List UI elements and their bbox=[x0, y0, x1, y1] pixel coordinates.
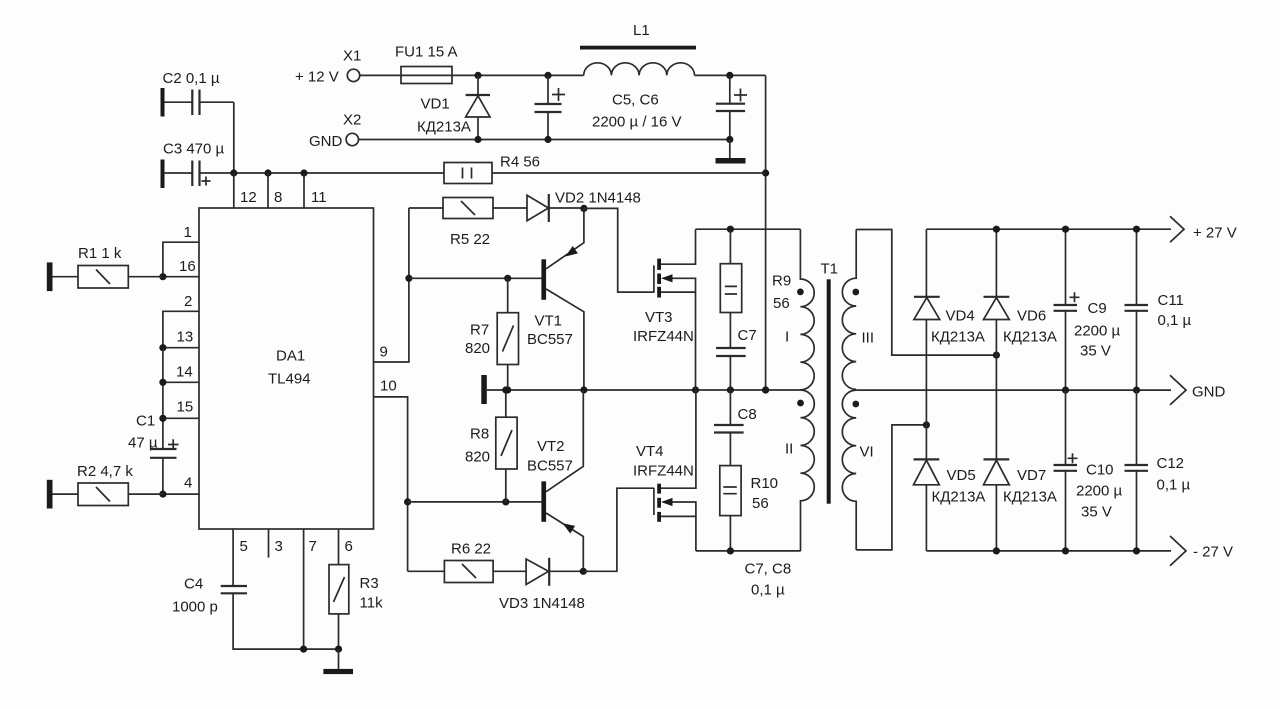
node VD1 bottom bbox=[474, 136, 481, 143]
terminal bar +rail bbox=[481, 375, 487, 404]
resistor R4 56 bbox=[444, 154, 540, 184]
svg-text:6: 6 bbox=[345, 538, 353, 555]
wire GND rail bbox=[856, 389, 1171, 391]
phase dot winding III bbox=[852, 289, 859, 296]
svg-text:1000 p: 1000 p bbox=[172, 599, 218, 616]
svg-text:R9: R9 bbox=[772, 273, 791, 290]
svg-text:9: 9 bbox=[380, 344, 388, 361]
op-amp U1 / IC DA1 TL494 body bbox=[199, 208, 374, 529]
wire mid rail left bbox=[487, 389, 801, 391]
node C6 bottom bbox=[726, 136, 733, 143]
node VD4 VD5 junction bbox=[923, 421, 930, 428]
node C9 top bbox=[1062, 226, 1069, 233]
node R7 bottom bbox=[504, 386, 511, 393]
connector X2 bbox=[309, 112, 361, 151]
capacitor C7 bbox=[716, 313, 757, 391]
svg-text:VI: VI bbox=[860, 444, 874, 461]
pin 14 stub bbox=[163, 381, 199, 383]
node C11 top bbox=[1133, 226, 1140, 233]
pin 1 stub bbox=[163, 242, 199, 277]
svg-text:BC557: BC557 bbox=[527, 458, 573, 475]
wire pin 12 bbox=[233, 173, 235, 208]
svg-text:C5, C6: C5, C6 bbox=[612, 92, 659, 109]
svg-text:VT2: VT2 bbox=[537, 438, 565, 455]
svg-text:КД213А: КД213А bbox=[932, 489, 986, 506]
wire bottom rail bbox=[696, 550, 801, 552]
svg-text:T1: T1 bbox=[821, 261, 839, 278]
node center tap feed bbox=[762, 386, 769, 393]
svg-text:14: 14 bbox=[176, 364, 193, 381]
arrow -27V output bbox=[1170, 536, 1233, 566]
resistor R7 820 bbox=[465, 278, 519, 390]
capacitor C6 bbox=[716, 75, 747, 139]
svg-text:IRFZ44N: IRFZ44N bbox=[633, 463, 694, 480]
resistor R3 11k bbox=[329, 565, 383, 650]
pin 6 wire bbox=[338, 529, 340, 565]
svg-text:VD5: VD5 bbox=[947, 467, 976, 484]
diode VD1 КД213А bbox=[417, 75, 490, 139]
svg-text:КД213А: КД213А bbox=[1003, 489, 1057, 506]
svg-text:16: 16 bbox=[179, 258, 196, 275]
wire VD6 VD7 vertical bbox=[995, 229, 997, 551]
diode VD7 КД213А bbox=[984, 459, 1057, 505]
svg-text:R1 1 k: R1 1 k bbox=[78, 245, 122, 262]
svg-text:11: 11 bbox=[311, 189, 327, 206]
svg-text:C7, C8: C7, C8 bbox=[745, 561, 792, 578]
capacitor C10 bbox=[1054, 390, 1123, 551]
svg-text:КД213А: КД213А bbox=[1003, 329, 1057, 346]
node pin11 top bbox=[300, 169, 307, 176]
transformer T1 primary winding I bbox=[785, 229, 814, 390]
node VD6 VD7 junction bbox=[993, 352, 1000, 359]
pin 7 wire bbox=[303, 529, 305, 649]
svg-text:C11: C11 bbox=[1158, 292, 1184, 309]
transformer T1 secondary winding III bbox=[842, 230, 874, 390]
capacitor C3 470 µ bbox=[161, 141, 225, 189]
wire pin 11 bbox=[303, 173, 305, 208]
node R4 feed bbox=[762, 169, 769, 176]
wire VD3 node to VT4 gate bbox=[583, 488, 654, 571]
wire X2 GND row bbox=[359, 139, 730, 141]
node C5 bottom bbox=[544, 136, 551, 143]
phase dot winding VI bbox=[852, 401, 859, 408]
svg-text:+ 27 V: + 27 V bbox=[1193, 225, 1237, 242]
fuse FU1 15 A bbox=[395, 44, 458, 84]
capacitor C1 47 µ bbox=[128, 413, 179, 495]
ground symbol bottom bbox=[323, 649, 353, 674]
svg-text:15: 15 bbox=[177, 399, 194, 416]
node VT1 collector bbox=[580, 386, 587, 393]
svg-text:C1: C1 bbox=[136, 413, 155, 430]
svg-text:8: 8 bbox=[274, 189, 282, 206]
svg-text:R4 56: R4 56 bbox=[500, 154, 540, 171]
capacitor C4 1000 p bbox=[172, 576, 339, 650]
svg-text:2200 µ / 16 V: 2200 µ / 16 V bbox=[592, 114, 682, 131]
svg-text:X1: X1 bbox=[343, 48, 361, 65]
svg-text:0,1 µ: 0,1 µ bbox=[751, 582, 785, 599]
svg-text:GND: GND bbox=[309, 133, 343, 150]
svg-text:TL494: TL494 bbox=[268, 371, 311, 388]
svg-text:35 V: 35 V bbox=[1080, 343, 1111, 360]
pin 10 stub bbox=[374, 397, 408, 571]
svg-text:C10: C10 bbox=[1086, 462, 1114, 479]
svg-text:2: 2 bbox=[184, 293, 192, 310]
pin 4 stub bbox=[163, 493, 199, 495]
svg-text:BC557: BC557 bbox=[527, 331, 573, 348]
svg-text:X2: X2 bbox=[343, 112, 361, 129]
node C11 bottom bbox=[1133, 387, 1140, 394]
node C6 top bbox=[726, 72, 733, 79]
resistor R9 56 bbox=[720, 229, 791, 312]
pin 2 stub bbox=[163, 311, 199, 347]
capacitor C5 bbox=[535, 75, 682, 139]
wire FU1 to +12V node bbox=[452, 74, 584, 76]
node C7 C8 mid bbox=[727, 386, 734, 393]
svg-text:C4: C4 bbox=[184, 576, 203, 593]
svg-text:4: 4 bbox=[184, 475, 192, 492]
node VT3 source rail bbox=[692, 386, 699, 393]
pin 16 stub bbox=[163, 276, 199, 278]
wire C3 to R4 row bbox=[200, 172, 445, 174]
node R9 top bbox=[727, 226, 734, 233]
node C12 bottom bbox=[1133, 547, 1140, 554]
wire base row VT1 bbox=[409, 277, 542, 279]
connector X1 bbox=[295, 48, 361, 86]
svg-text:VT3: VT3 bbox=[645, 309, 673, 326]
svg-text:820: 820 bbox=[465, 340, 490, 357]
node VD7 bottom bbox=[993, 547, 1000, 554]
resistor R6 22 bbox=[408, 541, 526, 583]
pin 9 stub bbox=[374, 208, 409, 362]
pin 13 stub bbox=[163, 347, 199, 349]
wire winding VI bottom loop bbox=[856, 425, 926, 550]
svg-text:III: III bbox=[862, 330, 875, 347]
node pin12 top bbox=[230, 169, 237, 176]
node R7 top bbox=[504, 275, 511, 282]
node pin14 bbox=[159, 379, 166, 386]
inductor L1 bbox=[580, 22, 696, 75]
resistor R2 4,7 k bbox=[47, 463, 163, 509]
wire R4 to +12V feed bbox=[492, 172, 766, 174]
svg-text:C3 470 µ: C3 470 µ bbox=[163, 141, 225, 158]
wire pin 8 bbox=[267, 173, 269, 208]
svg-text:C2 0,1 µ: C2 0,1 µ bbox=[163, 70, 220, 87]
resistor R5 22 bbox=[409, 198, 527, 249]
node C5 top bbox=[544, 72, 551, 79]
node pin8 top bbox=[264, 169, 271, 176]
svg-text:VD6: VD6 bbox=[1017, 308, 1046, 325]
svg-text:R3: R3 bbox=[360, 575, 379, 592]
svg-text:R10: R10 bbox=[751, 475, 779, 492]
resistor R1 1 k bbox=[47, 245, 163, 291]
diode VD6 КД213А bbox=[984, 297, 1057, 346]
svg-text:0,1 µ: 0,1 µ bbox=[1158, 312, 1192, 329]
transistor VT2 BC557 bbox=[527, 390, 583, 571]
svg-text:VD1: VD1 bbox=[421, 96, 450, 113]
pin 3 stub bbox=[268, 529, 270, 558]
capacitor C12 bbox=[1125, 390, 1191, 551]
svg-text:I: I bbox=[785, 329, 789, 346]
capacitor C8 bbox=[714, 390, 757, 466]
wire base row VT2 bbox=[408, 501, 542, 503]
node pin15 bbox=[159, 415, 166, 422]
wire pins 13-14-15 vertical bbox=[162, 348, 164, 449]
svg-text:- 27 V: - 27 V bbox=[1193, 544, 1233, 561]
svg-text:1: 1 bbox=[184, 224, 192, 241]
svg-text:0,1 µ: 0,1 µ bbox=[1157, 477, 1191, 494]
svg-text:VT1: VT1 bbox=[535, 313, 563, 330]
svg-text:3: 3 bbox=[275, 538, 283, 555]
node winding I bottom bbox=[762, 386, 769, 393]
arrow +27V output bbox=[1170, 216, 1237, 242]
pin 5 wire bbox=[232, 529, 234, 586]
diode VD2 1N4148 bbox=[527, 190, 641, 223]
svg-text:КД213А: КД213А bbox=[417, 119, 471, 136]
transformer T1 secondary winding VI bbox=[842, 390, 873, 550]
svg-text:DA1: DA1 bbox=[276, 348, 305, 365]
node R3 bottom bbox=[335, 646, 342, 653]
svg-text:GND: GND bbox=[1192, 384, 1226, 401]
svg-text:2200 µ: 2200 µ bbox=[1074, 323, 1121, 340]
wire +27V rail bbox=[926, 228, 1171, 230]
transistor VT3 IRFZ44N bbox=[633, 229, 696, 390]
diode VD3 1N4148 bbox=[499, 558, 585, 612]
resistor R10 56 bbox=[720, 466, 778, 551]
svg-text:12: 12 bbox=[240, 189, 257, 206]
svg-text:C7: C7 bbox=[738, 327, 757, 344]
transformer T1 core bbox=[821, 261, 839, 504]
wire X1 to FU1 bbox=[360, 74, 401, 76]
node R8 bottom bbox=[502, 498, 509, 505]
resistor R8 820 bbox=[465, 390, 517, 502]
node VD2 cathode bbox=[580, 205, 587, 212]
transistor VT1 BC557 bbox=[527, 208, 584, 390]
node pin16 bbox=[159, 273, 166, 280]
svg-text:R2 4,7 k: R2 4,7 k bbox=[77, 463, 133, 480]
phase dot winding II bbox=[797, 400, 804, 407]
svg-text:+ 12 V: + 12 V bbox=[295, 69, 339, 86]
svg-text:FU1 15 A: FU1 15 A bbox=[395, 44, 458, 61]
svg-text:13: 13 bbox=[177, 329, 194, 346]
node VD3 cathode bbox=[580, 568, 587, 575]
svg-text:C8: C8 bbox=[738, 406, 757, 423]
wire L1 to C6 node bbox=[695, 74, 766, 76]
svg-text:C12: C12 bbox=[1157, 455, 1185, 472]
pin 15 stub bbox=[163, 417, 199, 419]
capacitor C2 0,1 µ bbox=[161, 70, 234, 173]
node R10 bottom bbox=[727, 547, 734, 554]
capacitor C11 bbox=[1125, 229, 1192, 390]
wire +12V feed vertical bbox=[765, 75, 767, 390]
diode VD5 КД213А bbox=[914, 459, 986, 505]
svg-text:35 V: 35 V bbox=[1081, 504, 1112, 521]
svg-text:820: 820 bbox=[465, 449, 490, 466]
transformer T1 primary winding II bbox=[785, 390, 814, 551]
svg-text:VD2 1N4148: VD2 1N4148 bbox=[555, 190, 641, 207]
svg-text:VD7: VD7 bbox=[1017, 467, 1046, 484]
capacitor C9 bbox=[1054, 229, 1121, 390]
node pin9 base row bbox=[405, 275, 412, 282]
svg-text:5: 5 bbox=[240, 538, 248, 555]
svg-text:10: 10 bbox=[380, 378, 397, 395]
svg-text:56: 56 bbox=[773, 295, 790, 312]
svg-text:R6 22: R6 22 bbox=[451, 541, 491, 558]
pin labels 12 8 11 bbox=[240, 189, 327, 206]
svg-text:47 µ: 47 µ bbox=[128, 435, 158, 452]
wire VD5 vertical bbox=[925, 425, 927, 551]
node pin7 bottom bbox=[300, 646, 307, 653]
svg-text:R5 22: R5 22 bbox=[450, 231, 490, 248]
wire -27V rail bbox=[926, 550, 1171, 552]
svg-text:VD4: VD4 bbox=[946, 308, 975, 325]
diode VD4 КД213А bbox=[914, 297, 985, 346]
svg-text:VT4: VT4 bbox=[636, 443, 664, 460]
transistor VT4 IRFZ44N bbox=[633, 390, 696, 551]
label C7 C8 value bbox=[745, 561, 792, 599]
svg-text:C9: C9 bbox=[1088, 300, 1107, 317]
arrow GND output bbox=[1170, 375, 1226, 405]
node pin4 bbox=[159, 491, 166, 498]
node C10 bottom bbox=[1062, 547, 1069, 554]
node pin13 bbox=[159, 344, 166, 351]
svg-text:56: 56 bbox=[752, 495, 769, 512]
svg-text:VD3 1N4148: VD3 1N4148 bbox=[499, 595, 585, 612]
svg-text:7: 7 bbox=[309, 538, 317, 555]
svg-text:IRFZ44N: IRFZ44N bbox=[633, 328, 694, 345]
node VD1 top bbox=[474, 72, 481, 79]
wire drain rail top bbox=[696, 228, 801, 230]
svg-text:L1: L1 bbox=[633, 22, 650, 39]
node R8 top bbox=[502, 386, 509, 393]
svg-text:R8: R8 bbox=[470, 426, 489, 443]
svg-text:КД213А: КД213А bbox=[931, 329, 985, 346]
phase dot winding I bbox=[797, 289, 804, 296]
svg-text:2200 µ: 2200 µ bbox=[1076, 483, 1123, 500]
node VD6 top bbox=[993, 226, 1000, 233]
node pin10 base row bbox=[404, 498, 411, 505]
wire VD4 vertical bbox=[925, 229, 927, 425]
node C9 bottom bbox=[1062, 387, 1069, 394]
wire VD2 node to VT3 gate bbox=[584, 208, 654, 292]
svg-text:R7: R7 bbox=[470, 322, 489, 339]
wire winding III top loop bbox=[856, 230, 996, 356]
ground symbol input bbox=[716, 140, 746, 164]
svg-text:II: II bbox=[785, 441, 793, 458]
svg-text:11k: 11k bbox=[360, 595, 384, 612]
